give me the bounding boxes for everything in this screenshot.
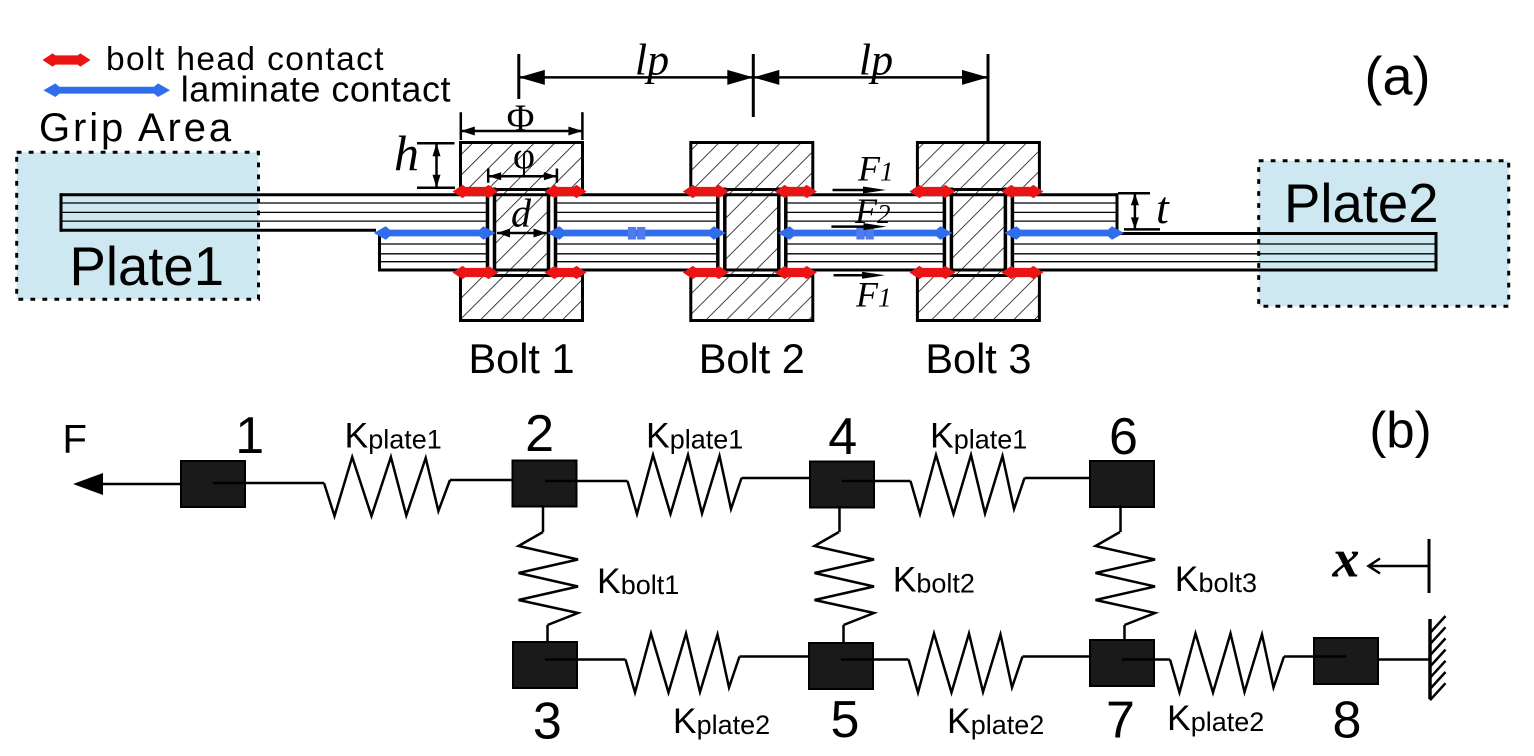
plate1 bottom edge grip section	[61, 229, 376, 232]
svg-text:x: x	[1332, 529, 1360, 589]
wire spring-node8	[1284, 655, 1346, 658]
laminate contact line left segment	[374, 226, 496, 240]
wire Kbolt1-node3	[546, 625, 549, 643]
svg-text:4: 4	[828, 408, 857, 466]
svg-text:(b): (b)	[1369, 402, 1431, 459]
wire node4-Kbolt2	[838, 506, 841, 532]
bolt 2 nut	[691, 276, 813, 321]
wire spring-node7	[1023, 655, 1091, 658]
wire node2-Kbolt1	[542, 505, 545, 532]
bolt 1 head	[461, 143, 583, 190]
wire node1-spring	[213, 482, 324, 485]
wire node4-spring	[842, 480, 911, 483]
bolt 1 shank	[495, 190, 549, 276]
bolt 3 shank	[951, 190, 1005, 276]
legend laminate contact mark	[43, 83, 170, 97]
svg-text:Φ: Φ	[507, 98, 535, 140]
svg-text:7: 7	[1106, 692, 1135, 750]
spring Kplate2 (3-5)	[626, 634, 740, 693]
plate2 bottom edge	[378, 269, 1436, 272]
svg-text:d: d	[511, 191, 532, 236]
svg-text:Bolt 3: Bolt 3	[925, 335, 1031, 382]
bolt 3 hole edges	[943, 188, 947, 277]
F1 top arrow	[833, 189, 873, 192]
wire node8-wall	[1378, 658, 1430, 661]
spring Kbolt1	[519, 532, 579, 625]
svg-text:Plate2: Plate2	[1284, 173, 1439, 234]
force F arrow	[98, 483, 181, 486]
svg-text:t: t	[1156, 182, 1170, 233]
svg-text:laminate contact: laminate contact	[181, 68, 451, 109]
plate2 left end edge	[378, 232, 381, 272]
bolt 2 shank	[725, 190, 779, 276]
fixed wall	[1428, 619, 1432, 699]
spring Kplate1 (4-6)	[911, 455, 1025, 514]
spring Kplate2 (5-7)	[909, 634, 1023, 693]
bolt 3 nut	[917, 276, 1039, 321]
bolt 1 hole edges	[486, 188, 490, 277]
laminate contact line bolt1-bolt2	[548, 226, 726, 240]
node 6 mass	[1090, 461, 1154, 507]
plate1 top edge	[61, 193, 1117, 196]
svg-text:2: 2	[525, 405, 554, 463]
laminate ply lines	[61, 202, 487, 204]
spring Kplate2 (7-8)	[1170, 634, 1284, 693]
bolt 2 shank edges	[723, 188, 727, 277]
node 8 mass	[1314, 638, 1378, 684]
svg-text:Grip Area: Grip Area	[39, 106, 234, 150]
svg-text:6: 6	[1109, 408, 1138, 466]
svg-text:F: F	[63, 417, 87, 461]
plate2 top edge right section	[1117, 232, 1436, 235]
svg-text:lp: lp	[859, 36, 893, 85]
wire Kbolt2-node5	[842, 625, 845, 644]
wire spring-node6	[1025, 477, 1091, 480]
bolt 3 head	[917, 143, 1039, 190]
svg-text:φ: φ	[513, 136, 535, 178]
bolt 2 head contact marks	[683, 185, 729, 198]
wire node2-spring	[545, 480, 628, 483]
Phi dimension	[460, 112, 463, 140]
plate1 right stub end edge	[1116, 193, 1119, 235]
wire node3-spring	[545, 658, 626, 661]
grip area Plate2 box	[1259, 161, 1509, 307]
t dimension	[1118, 192, 1150, 195]
wire node5-spring	[841, 658, 909, 661]
wire spring-node5	[740, 655, 810, 658]
svg-text:8: 8	[1333, 692, 1362, 750]
x arrow	[1369, 565, 1429, 568]
laminate contact line bolt2-bolt3	[778, 226, 953, 240]
node 3 mass	[513, 642, 577, 688]
grip area Plate1 box	[17, 152, 259, 299]
bolt 3 shank edges	[950, 188, 954, 277]
wire spring-node4	[742, 477, 811, 480]
spring Kbolt2	[815, 532, 875, 625]
legend bolt head contact mark	[43, 53, 91, 66]
wire spring-node2	[450, 479, 513, 482]
bolt 3 head contact marks	[909, 185, 955, 198]
laminate contact line right segment	[1004, 226, 1124, 240]
lp dimension ticks	[517, 54, 520, 99]
spring Kplate1 (1-2)	[324, 457, 450, 516]
bolt 2 head	[691, 143, 813, 190]
h dimension	[417, 142, 455, 145]
node 1 mass	[181, 461, 245, 507]
node 2 mass	[513, 461, 577, 507]
bolt 2 hole edges	[716, 188, 720, 277]
plate1 left end edge	[60, 193, 63, 232]
svg-text:Plate1: Plate1	[70, 236, 225, 297]
node 5 mass	[809, 643, 873, 689]
svg-text:Bolt 2: Bolt 2	[699, 335, 805, 382]
bolt 1 shank edges	[493, 188, 497, 277]
d dimension	[497, 232, 547, 235]
svg-text:3: 3	[533, 693, 562, 751]
node 4 mass	[810, 462, 874, 508]
wire node6-Kbolt3	[1119, 505, 1122, 532]
wire node7-spring	[1122, 658, 1170, 661]
svg-text:1: 1	[235, 407, 264, 465]
spring Kbolt3	[1096, 532, 1156, 625]
F1 bottom arrow	[834, 274, 872, 277]
svg-text:(a): (a)	[1365, 47, 1431, 107]
svg-text:h: h	[394, 125, 419, 181]
svg-text:5: 5	[831, 691, 860, 749]
F2 arrow	[831, 225, 872, 228]
bolt 1 nut	[461, 276, 583, 321]
svg-text:Bolt 1: Bolt 1	[468, 335, 574, 382]
plate2 right end edge	[1435, 232, 1438, 272]
phi dimension	[487, 169, 490, 183]
spring Kplate1 (2-4)	[628, 455, 742, 514]
svg-text:lp: lp	[635, 36, 669, 85]
lp dimension lines	[519, 76, 754, 79]
node 7 mass	[1090, 640, 1154, 686]
bolt 1 head contact marks	[453, 185, 499, 198]
wire Kbolt3-node7	[1123, 625, 1126, 641]
